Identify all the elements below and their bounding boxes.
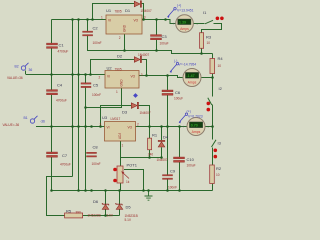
capacitor C2 <box>83 26 102 46</box>
wire: B2 pin stub <box>25 71 27 75</box>
svg-text:Amps: Amps <box>188 81 197 85</box>
svg-text:100uF: 100uF <box>160 42 169 46</box>
svg-text:VALUE=36: VALUE=36 <box>7 76 23 80</box>
capacitor C8 <box>87 145 101 167</box>
svg-text:3: 3 <box>141 73 143 77</box>
node bottom-D5 <box>118 189 121 192</box>
svg-text:1N4007: 1N4007 <box>157 158 168 162</box>
node out1-probe <box>164 18 167 21</box>
node gnd1-C3 <box>155 49 158 52</box>
node bottom-C7 <box>50 189 53 192</box>
svg-text:1N4007: 1N4007 <box>140 111 151 115</box>
svg-text:100uF: 100uF <box>174 97 183 101</box>
node adj-D4 <box>160 156 163 159</box>
switch I2 <box>207 86 223 111</box>
svg-text:100nF: 100nF <box>168 186 177 190</box>
resistor R1 <box>148 133 158 157</box>
node rail1-colB <box>77 18 80 21</box>
svg-text:V=0.7023: V=0.7023 <box>188 115 203 119</box>
wire: U2 output to meter2 <box>139 76 183 78</box>
svg-text:4700uF: 4700uF <box>60 163 71 167</box>
potentiometer POT1 <box>113 163 138 185</box>
node gnd1-U1 <box>123 49 126 52</box>
svg-text:B2: B2 <box>15 65 19 69</box>
node rail3-colB <box>77 125 80 128</box>
svg-text:4700uF: 4700uF <box>58 50 69 54</box>
wire: U3 output to meter3 <box>136 126 188 128</box>
node rail3-D3 <box>99 125 102 128</box>
svg-text:D5: D5 <box>126 205 132 210</box>
wire: D6 column <box>105 191 107 216</box>
wire: U1 GND stub <box>124 34 126 51</box>
node bottom-C9 <box>166 189 169 192</box>
dc generator B1 <box>24 116 46 124</box>
svg-text:100nF: 100nF <box>92 93 101 97</box>
svg-text:Amps: Amps <box>180 27 189 31</box>
resistor R4 <box>210 56 223 74</box>
svg-text:390: 390 <box>76 211 82 215</box>
switch I3 <box>212 140 222 159</box>
svg-text:(+): (+) <box>177 4 181 8</box>
svg-text:VI: VI <box>108 19 111 23</box>
svg-text:0.70: 0.70 <box>191 124 198 128</box>
svg-text:10: 10 <box>207 41 211 45</box>
svg-text:1: 1 <box>116 90 118 94</box>
svg-text:V=13.9451: V=13.9451 <box>177 8 194 12</box>
wire: D2 cathode stub <box>141 60 147 76</box>
svg-text:U1: U1 <box>106 8 112 13</box>
svg-text:2: 2 <box>137 123 139 127</box>
node out2-D2 <box>145 74 148 77</box>
svg-text:C7: C7 <box>62 153 68 158</box>
svg-text:240: 240 <box>148 153 154 157</box>
svg-text:C9: C9 <box>170 169 176 174</box>
node adj-R1 <box>148 156 151 159</box>
capacitor C3 <box>151 34 169 46</box>
voltage probe P3 <box>179 110 203 124</box>
node rail3-filter <box>50 125 53 128</box>
svg-text:2: 2 <box>99 76 101 80</box>
wire: D3 anode stub <box>101 106 132 127</box>
svg-text:Amps: Amps <box>192 130 201 134</box>
wire: U3 ADJ stub <box>120 141 122 158</box>
svg-text:VO: VO <box>128 126 133 130</box>
svg-text:C10: C10 <box>187 157 195 162</box>
svg-text:100nF: 100nF <box>93 41 102 45</box>
svg-text:D4: D4 <box>163 135 169 140</box>
voltage probe P1 <box>168 4 194 18</box>
svg-text:D6: D6 <box>93 199 99 204</box>
node rail2-C5 <box>84 73 87 76</box>
svg-text:100nF: 100nF <box>92 162 101 166</box>
zener diode D6 <box>88 199 114 218</box>
voltage probe P2 <box>170 59 196 73</box>
capacitor C10 <box>174 157 196 168</box>
ammeter meter3 <box>182 118 210 136</box>
node rail1-D1 <box>91 18 94 21</box>
node rail2-D2 <box>89 73 92 76</box>
wire: R2 bottom lead <box>212 184 214 191</box>
svg-text:7805: 7805 <box>115 10 122 14</box>
wire: D4 column <box>161 127 163 158</box>
svg-text:R4: R4 <box>218 56 224 61</box>
wire: R4 bottom to meter2 node <box>212 74 214 78</box>
wire: meter3 to I3 <box>205 127 213 140</box>
resistor R3 <box>200 33 212 49</box>
svg-text:VI: VI <box>107 126 110 130</box>
regulator U3 LM317 <box>100 115 140 148</box>
svg-text:C8: C8 <box>93 145 99 150</box>
wire: meter1 to switch I1 <box>193 23 204 25</box>
node out2-C6 <box>166 74 169 77</box>
svg-text:5.1V: 5.1V <box>125 218 132 222</box>
node rail2-colB <box>77 73 80 76</box>
svg-text:C1: C1 <box>59 43 65 48</box>
svg-text:GND: GND <box>120 79 124 87</box>
diode D2 <box>117 53 149 63</box>
svg-text:-1.47: -1.47 <box>186 74 194 78</box>
wire: R4 top lead <box>212 54 214 59</box>
svg-text:D2: D2 <box>117 54 123 59</box>
diode D1 <box>125 1 152 13</box>
svg-text:B1: B1 <box>24 116 28 120</box>
wire: rail3 from B1 to U3 <box>36 126 105 128</box>
wire: D1 cathode stub <box>141 4 144 20</box>
svg-text:C4: C4 <box>57 83 63 88</box>
svg-text:ADJ: ADJ <box>118 133 122 139</box>
node rail3-colA <box>71 125 74 128</box>
node rail1-C2 <box>86 18 89 21</box>
node out3-C10 <box>178 125 181 128</box>
svg-text:U3: U3 <box>102 115 108 120</box>
regulator U2 7905 <box>99 66 143 95</box>
svg-text:3.9V: 3.9V <box>107 214 114 218</box>
capacitor C7 <box>47 152 71 167</box>
svg-text:POT1: POT1 <box>127 163 138 168</box>
svg-text:1N5228B: 1N5228B <box>88 214 101 218</box>
svg-text:(+): (+) <box>187 110 191 114</box>
node bottom-colB <box>77 189 80 192</box>
wire: U1 output to meter <box>142 20 176 24</box>
svg-text:1.39: 1.39 <box>179 21 186 25</box>
wire: long column B <box>78 20 80 191</box>
svg-text:1: 1 <box>122 144 124 148</box>
wire: I3 to R2 <box>212 148 214 166</box>
svg-text:LM317: LM317 <box>111 117 121 121</box>
node bottom-C8 <box>90 189 93 192</box>
svg-text:VALUE=-36: VALUE=-36 <box>3 123 20 127</box>
wire: C2 column down to ground rail <box>88 20 213 54</box>
wire: zener bottom net <box>83 215 120 217</box>
capacitor C1 <box>47 43 69 54</box>
wire: mid rail from B2 to U2 pin2 <box>26 74 105 76</box>
wire: D5 column <box>119 191 121 216</box>
node gnd2-C5 <box>84 106 87 109</box>
wire: +input top rail to U1 pin1 <box>52 19 107 21</box>
svg-text:10: 10 <box>218 64 222 68</box>
ammeter meter2 <box>178 69 206 87</box>
resistor R2 <box>210 165 222 184</box>
svg-text:R2: R2 <box>216 166 222 171</box>
svg-text:GND: GND <box>123 24 127 32</box>
node bottom-wiper <box>142 189 145 192</box>
svg-text:1: 1 <box>101 16 103 20</box>
wire: D2 anode stub <box>91 60 135 75</box>
svg-text:(-): (-) <box>174 59 177 63</box>
wire: left filter column (C1/C4/C7) <box>51 20 53 191</box>
ammeter meter1 <box>173 15 199 33</box>
node rail3-C5col <box>84 125 87 128</box>
node out3-C6C9 <box>166 125 169 128</box>
svg-text:1N4007: 1N4007 <box>141 9 152 13</box>
node rail3-C8 <box>90 125 93 128</box>
wire: ADJ net to R1 and D4 <box>121 157 162 159</box>
capacitor C6 <box>162 90 183 101</box>
dc generator B2 <box>15 63 33 72</box>
wire: I1 to R3 <box>202 24 222 33</box>
node rail2-colA <box>71 73 74 76</box>
node bottom-C5col <box>84 189 87 192</box>
wire: R3 bottom lead <box>201 48 203 53</box>
node out1-D1 <box>142 18 145 21</box>
svg-text:1k: 1k <box>126 180 130 184</box>
svg-text:VO: VO <box>131 75 136 79</box>
wire: POT1 wiper to ground rail <box>124 170 144 191</box>
wire: D3 cathode stub <box>138 106 150 127</box>
wire: POT1 bottom lead <box>120 183 122 191</box>
capacitor C9 <box>163 169 178 190</box>
node bottom-C10 <box>178 189 181 192</box>
svg-text:R3: R3 <box>206 35 212 40</box>
svg-text:VO: VO <box>134 19 139 23</box>
svg-text:C2: C2 <box>93 26 99 31</box>
svg-text:36: 36 <box>29 68 33 72</box>
wire: meter2 to I2 <box>201 78 213 97</box>
node out3-D4 <box>160 125 163 128</box>
wire: U2 GND stub <box>86 88 122 108</box>
svg-text:U2: U2 <box>107 66 113 71</box>
diode D3 <box>122 102 151 115</box>
node dots <box>50 18 214 217</box>
svg-text:D1: D1 <box>125 8 131 13</box>
resistor R5 <box>65 209 83 218</box>
svg-text:1N4007: 1N4007 <box>138 53 149 57</box>
node zener-D6 <box>104 214 107 217</box>
svg-text:C3: C3 <box>162 34 168 39</box>
node rail2-filter <box>50 73 53 76</box>
svg-text:10: 10 <box>216 173 220 177</box>
node bottom-gndsym <box>147 189 150 192</box>
svg-text:2: 2 <box>119 36 121 40</box>
svg-text:C6: C6 <box>175 90 181 95</box>
svg-text:D3: D3 <box>122 110 128 115</box>
wire: C6/C9 column <box>167 76 169 191</box>
svg-text:7905: 7905 <box>115 67 122 71</box>
capacitor C4 <box>47 83 67 103</box>
node out3-I2 <box>211 125 214 128</box>
svg-text:R1: R1 <box>152 133 158 138</box>
svg-text:VI: VI <box>107 75 110 79</box>
zener diode D5 <box>116 203 138 222</box>
node out3-D3 <box>148 125 151 128</box>
wire: long column A <box>72 20 74 177</box>
svg-text:4700uF: 4700uF <box>56 99 67 103</box>
regulator U1 7805 <box>101 8 146 40</box>
svg-text:100uF: 100uF <box>187 164 196 168</box>
svg-text:C5: C5 <box>93 83 99 88</box>
wire: C3 column <box>156 20 158 51</box>
ground symbol <box>145 191 153 201</box>
wire: C5 / gnd column <box>85 75 87 191</box>
svg-text:V=-14.7954: V=-14.7954 <box>179 62 197 66</box>
node rail1-colA <box>71 18 74 21</box>
wire: zener feed loop from column A <box>47 177 73 216</box>
wire: POT1 top lead <box>120 158 122 167</box>
switch I1 <box>203 10 224 24</box>
wire: bottom ground rail <box>52 190 213 192</box>
blue marker diamond <box>133 93 138 98</box>
wire: C10 column <box>179 127 181 191</box>
wire: I2 to meter3 output node <box>212 105 214 127</box>
svg-text:-36: -36 <box>40 120 45 124</box>
node out1-C3 <box>155 18 158 21</box>
svg-text:R5: R5 <box>66 209 72 214</box>
node out2-R4 <box>211 76 214 79</box>
wire: R1 column <box>149 127 151 158</box>
wire: D1 bypass loop <box>93 4 135 20</box>
diode D4 <box>157 135 169 163</box>
node gnd1-R3 <box>200 52 203 55</box>
node bottom-D6 <box>104 189 107 192</box>
capacitor C5 <box>81 83 101 98</box>
